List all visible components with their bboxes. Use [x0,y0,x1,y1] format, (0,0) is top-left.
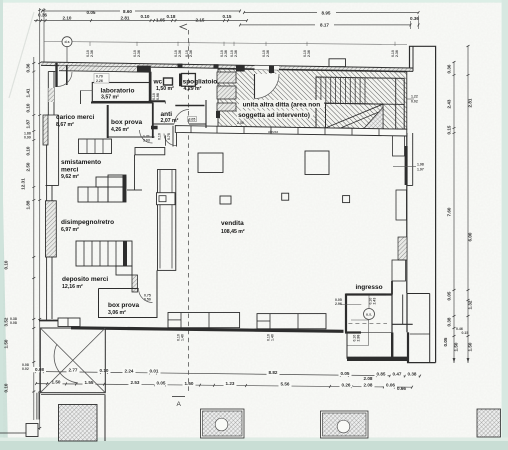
svg-text:1.22: 1.22 [411,95,418,99]
black jamb segments in top wall [137,66,151,73]
right dimension vertical lines [453,62,455,363]
svg-text:1.40: 1.40 [181,334,185,341]
svg-text:2.36: 2.36 [395,50,399,57]
svg-text:0.75: 0.75 [167,133,171,140]
south wall main [71,328,344,332]
left wall pilaster lower [46,201,57,257]
svg-text:altezza: altezza [268,130,278,134]
box prova lower room [132,275,138,292]
svg-text:0.10: 0.10 [26,146,31,155]
hatched area unita altra ditta [218,69,407,129]
svg-text:0.10: 0.10 [158,133,162,140]
svg-text:2.30: 2.30 [237,121,244,125]
pillar 4 [477,409,501,437]
svg-text:0.66: 0.66 [397,386,406,391]
svg-text:vendita: vendita [221,220,244,227]
east wall fixtures [393,135,405,156]
svg-text:0.99: 0.99 [24,136,31,140]
stair risers upper flight [315,77,317,103]
top wall inner band left [59,66,151,73]
svg-text:u.s.: u.s. [366,312,372,316]
svg-text:0.18: 0.18 [167,14,176,19]
svg-text:0.08: 0.08 [35,367,44,372]
dimension line 8.95 [244,12,317,14]
vendita pillar squares [198,153,223,173]
svg-text:A: A [177,401,182,408]
svg-text:0.05: 0.05 [87,10,96,15]
top-right corner walls [410,46,436,362]
scan edge top strip [0,0,508,3]
anti room [152,103,154,139]
svg-text:1.88: 1.88 [26,200,31,209]
ramp area with X [40,328,105,393]
door in hatch area with quarter swing [255,74,280,99]
svg-text:2.36: 2.36 [178,50,182,57]
svg-text:1.50: 1.50 [4,339,9,348]
svg-text:disimpegno/retro: disimpegno/retro [61,219,114,226]
svg-text:4,29 m²: 4,29 m² [184,86,202,92]
shelf cluster deposito [76,241,132,266]
svg-text:8.60: 8.60 [123,9,132,14]
ingresso circle u.s. [364,309,375,320]
svg-text:3,06 m²: 3,06 m² [108,310,126,316]
svg-text:2.36: 2.36 [307,50,311,57]
svg-text:anti: anti [161,111,173,118]
svg-text:1.32: 1.32 [468,300,473,309]
svg-text:0.01: 0.01 [150,369,159,374]
svg-text:0.15: 0.15 [447,125,452,134]
pillar 3 [321,411,369,438]
svg-text:2.81: 2.81 [468,98,473,107]
tick 1.22/0.02 [407,98,414,100]
svg-text:0.38: 0.38 [447,317,452,326]
shelf cluster disimpegno [78,187,108,202]
svg-text:unita altra ditta (area non: unita altra ditta (area non [243,102,321,109]
svg-text:0.06: 0.06 [386,383,395,388]
tiny label pairs on interior line [89,42,91,46]
svg-text:d.s: d.s [64,40,69,44]
svg-text:8.95: 8.95 [322,10,331,15]
svg-text:2.53: 2.53 [131,380,140,385]
svg-text:1.05: 1.05 [156,17,165,22]
scan edge bottom strip [0,438,508,442]
dimension line top row 2 [34,20,247,22]
svg-text:2.43: 2.43 [373,298,377,305]
svg-text:108,45 m²: 108,45 m² [221,229,245,235]
svg-text:1.40: 1.40 [271,334,275,341]
svg-text:0.02: 0.02 [22,367,29,371]
svg-text:5.56: 5.56 [281,382,290,387]
svg-text:2.15: 2.15 [196,17,205,22]
svg-text:carico merci: carico merci [56,114,94,121]
svg-text:0.36: 0.36 [410,16,419,21]
walls below ramp [36,393,38,420]
bottom dimension line 2 [36,384,412,388]
left outer wall lower [46,257,48,321]
svg-text:0.15: 0.15 [223,14,232,19]
svg-text:wc: wc [153,79,163,86]
svg-text:0.08: 0.08 [10,321,17,325]
pillar 2 [201,409,245,438]
svg-text:2,07 m²: 2,07 m² [161,118,179,124]
corridor vestibule below band [151,126,158,130]
counter box [135,148,165,155]
svg-text:ingresso: ingresso [355,284,382,291]
svg-text:8.17: 8.17 [320,23,329,28]
svg-text:2.36: 2.36 [266,50,270,57]
svg-text:0.50: 0.50 [144,298,151,302]
stair lower flight box [326,103,384,129]
svg-text:2.77: 2.77 [69,368,78,373]
svg-text:0.47: 0.47 [393,372,402,377]
svg-text:0.10: 0.10 [26,103,31,112]
dark stair corner triangle [364,107,383,129]
door top-left [55,63,57,87]
shelf box smistamento top [79,139,112,154]
svg-text:2.08: 2.08 [364,383,373,388]
svg-text:box prova: box prova [111,119,142,126]
svg-text:1.87: 1.87 [26,119,31,128]
svg-text:6,97 m²: 6,97 m² [61,227,79,233]
svg-text:1.23: 1.23 [226,381,235,386]
south wall left portion [39,320,58,322]
svg-text:3.52: 3.52 [4,317,9,326]
left wall pilaster upper [43,115,48,145]
svg-text:merci: merci [61,167,79,174]
left outer wall upper [47,72,49,116]
hatched wall column pieces [217,72,236,83]
svg-text:2.36: 2.36 [224,50,228,57]
interior dimension line [44,42,407,45]
tick 1.98/1.97 [393,166,416,168]
svg-text:2.43: 2.43 [447,99,452,108]
svg-text:0.10: 0.10 [4,383,9,392]
small box bottom-left [26,424,38,437]
svg-text:3.03: 3.03 [143,139,150,143]
svg-text:6.00: 6.00 [468,232,473,241]
svg-text:12.31: 12.31 [21,178,26,190]
svg-text:4,26 m²: 4,26 m² [111,127,129,133]
ingresso room [346,293,365,295]
svg-text:0.85: 0.85 [377,371,386,376]
svg-text:2.10: 2.10 [63,16,72,21]
svg-text:0.36: 0.36 [26,63,31,72]
spogliatoio room [179,74,182,87]
svg-text:2.96: 2.96 [335,302,342,306]
svg-text:spogliatoio: spogliatoio [183,79,218,86]
svg-text:2.36: 2.36 [189,50,193,57]
svg-text:12,16 m²: 12,16 m² [62,284,83,290]
left outer wall mid [46,115,48,186]
dimension line 8.60 [42,10,120,12]
svg-text:2.36: 2.36 [234,50,238,57]
svg-text:1.50: 1.50 [468,342,473,351]
svg-text:2.08: 2.08 [364,376,373,381]
svg-text:0.05: 0.05 [341,371,350,376]
svg-text:2.36: 2.36 [137,50,141,57]
svg-text:1.97: 1.97 [417,168,424,172]
wall shaft [158,170,176,271]
svg-text:9,62 m²: 9,62 m² [61,174,79,180]
band of display cases below hatch [175,126,406,136]
svg-text:2.36: 2.36 [90,50,94,57]
top wall (sloped scan) [41,62,413,71]
section line A-A dashed [188,30,190,393]
svg-text:1.98: 1.98 [417,163,424,167]
dimension line 8.17 [240,24,315,26]
svg-text:0.02: 0.02 [411,100,418,104]
svg-text:box prova: box prova [108,302,139,309]
entrance stoop wall [347,357,407,361]
south shelf boxes [168,313,240,328]
svg-text:1.60: 1.60 [185,381,194,386]
svg-text:0.05: 0.05 [157,381,166,386]
svg-text:smistamento: smistamento [61,159,101,166]
chimney bump [329,59,346,67]
stair enclosure [316,77,404,129]
svg-text:0.05: 0.05 [443,337,448,346]
svg-text:0.15: 0.15 [462,331,469,335]
svg-text:1.55: 1.55 [85,380,94,385]
svg-text:1,50 m²: 1,50 m² [156,86,174,92]
bottom dimension line 1 [36,372,420,377]
svg-text:8,67 m²: 8,67 m² [56,122,74,128]
svg-text:0.26: 0.26 [342,382,351,387]
svg-text:0.05: 0.05 [447,291,452,300]
unita altra ditta label [239,100,324,108]
svg-text:2.98: 2.98 [357,335,361,342]
svg-text:soggetta ad intervento): soggetta ad intervento) [238,112,310,119]
svg-text:2.26: 2.26 [96,79,103,83]
laboratorio room [92,83,151,102]
circle symbol d.s [62,37,72,47]
svg-text:0.10: 0.10 [141,14,150,19]
svg-text:2.24: 2.24 [125,368,134,373]
scan edge left strip [0,0,8,450]
svg-text:0.98: 0.98 [156,93,160,100]
scan edge right strip [502,0,508,450]
svg-text:8.82: 8.82 [269,370,278,375]
box prova upper room [107,105,109,138]
pillar bottom-left big [59,405,98,442]
svg-text:0.36: 0.36 [447,64,452,73]
svg-text:laboratorio: laboratorio [101,87,135,94]
left dimension vertical lines [39,8,41,430]
svg-text:deposito merci: deposito merci [62,276,108,283]
svg-text:3,57 m²: 3,57 m² [101,95,119,101]
svg-text:1.50: 1.50 [454,342,459,351]
svg-text:2.50: 2.50 [26,162,31,171]
svg-text:1.41: 1.41 [26,88,31,97]
svg-text:2.81: 2.81 [121,16,130,21]
svg-text:3.05: 3.05 [189,118,196,122]
vendita east wall [406,133,408,293]
svg-text:0.38: 0.38 [408,372,417,377]
svg-text:0.10: 0.10 [100,368,109,373]
svg-text:0.10: 0.10 [4,260,9,269]
svg-text:0.70: 0.70 [96,75,103,79]
corner scan artifact diagonal [9,12,34,98]
svg-text:7.60: 7.60 [447,207,452,216]
wc room [149,100,166,102]
